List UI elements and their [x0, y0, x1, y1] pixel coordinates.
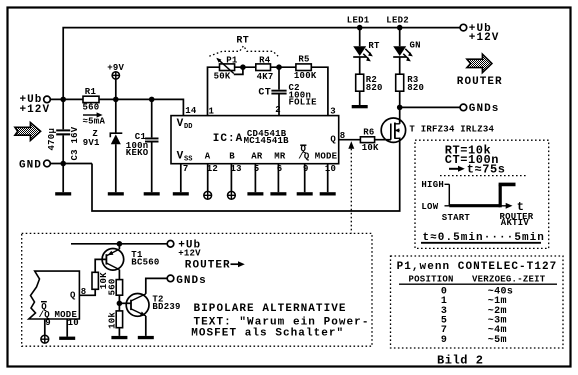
ROUTER label lower [185, 260, 245, 272]
svg-text:≈5mA: ≈5mA [83, 116, 106, 126]
ground under C1 [144, 192, 160, 195]
svg-text:POSITION: POSITION [409, 275, 454, 285]
svg-text:START: START [442, 213, 471, 223]
svg-text:DD: DD [184, 123, 192, 131]
svg-text:GNDs: GNDs [176, 275, 207, 287]
junction 9V node [113, 97, 119, 103]
LED2 green [393, 28, 421, 75]
node LED2 junction [397, 25, 403, 31]
svg-text:10K: 10K [362, 143, 379, 153]
pin 7 VSS to ground [180, 164, 182, 193]
pin 9 fragment terminal [44, 319, 46, 335]
svg-text:4K7: 4K7 [257, 72, 274, 82]
junction P1 wiper [240, 64, 246, 70]
node GNDs lower terminal [167, 275, 207, 287]
svg-text:3: 3 [330, 107, 336, 117]
timing diagram [421, 180, 533, 228]
svg-text:A: A [205, 151, 211, 161]
node GNDs output terminal [460, 103, 499, 115]
svg-text:~5m: ~5m [488, 335, 507, 346]
svg-text:12: 12 [207, 164, 218, 174]
node +Ub output terminal [460, 23, 499, 44]
svg-text:10: 10 [68, 318, 79, 328]
svg-text:RT: RT [236, 35, 249, 46]
transistor T1 BC560 [102, 244, 159, 280]
pin 9 to ground [304, 164, 306, 193]
ground under C3 [62, 164, 64, 193]
svg-text:5: 5 [254, 164, 260, 174]
svg-text:AKTIV: AKTIV [501, 218, 530, 228]
svg-text:LOW: LOW [421, 202, 438, 212]
junction GND [60, 161, 66, 167]
svg-text:MODE: MODE [315, 151, 338, 161]
wire R4 to R5 [271, 66, 296, 68]
node LED1 junction [357, 25, 363, 31]
svg-text:SS: SS [184, 156, 192, 164]
svg-text:BIPOLARE ALTERNATIVE: BIPOLARE ALTERNATIVE [194, 303, 347, 315]
ground under zener [108, 192, 124, 195]
RT dotted brace [209, 35, 278, 56]
junction pin2 node [276, 64, 282, 70]
svg-text:470µ: 470µ [47, 128, 57, 151]
LED1 red [353, 28, 380, 75]
svg-text:C3 16V: C3 16V [70, 126, 80, 160]
svg-text:Q: Q [330, 135, 336, 145]
svg-text:7: 7 [183, 164, 189, 174]
node +Ub input terminal [20, 94, 51, 116]
wire +12V rail up and across top [63, 28, 460, 100]
wire base node to T2 [119, 302, 131, 304]
wire R5 to pin3 riser [311, 67, 328, 115]
resistor R3 820 [396, 74, 424, 107]
svg-text:R6: R6 [363, 127, 374, 137]
svg-text:IC:A: IC:A [213, 133, 244, 145]
resistor R4 4K7 [256, 55, 274, 82]
svg-text:10: 10 [325, 164, 336, 174]
svg-text:+12V: +12V [20, 104, 51, 116]
svg-text:50K: 50K [214, 72, 231, 82]
svg-text:GN: GN [410, 40, 421, 50]
wire GND terminal to rail [50, 163, 92, 165]
pin 12 A terminal [207, 164, 209, 192]
wire Q pin8 to R6 [339, 139, 361, 141]
svg-text:9: 9 [45, 318, 51, 328]
pin 10 MODE to ground [327, 164, 329, 193]
svg-text:R5: R5 [298, 54, 309, 64]
supply +9V [107, 63, 124, 99]
resistor R6 10K [360, 127, 379, 153]
capacitor C3 470u [47, 99, 80, 163]
svg-text:6: 6 [277, 164, 283, 174]
junction T1 emitter [117, 241, 123, 247]
resistor R5 100K [294, 54, 317, 81]
junction T2 base node [117, 301, 123, 307]
wire pin1 riser [208, 67, 220, 115]
svg-text:Bild 2: Bild 2 [437, 353, 484, 367]
op IC1 CD4541B box [171, 116, 339, 164]
svg-text:KEKO: KEKO [126, 148, 149, 158]
ground under 10k [118, 328, 120, 336]
ground under T2 emitter [138, 336, 154, 339]
svg-text:B: B [229, 151, 235, 161]
svg-text:GND: GND [19, 159, 42, 171]
svg-text:560: 560 [83, 102, 100, 112]
node GND input terminal [19, 159, 50, 171]
potentiometer P1 50K [214, 55, 243, 81]
svg-text:ROUTER: ROUTER [185, 260, 231, 272]
svg-text:ROUTER: ROUTER [457, 76, 503, 88]
transistor T1 MOSFET IRFZ34 [381, 107, 494, 142]
junction +Ub/rail [60, 97, 66, 103]
delay range label [421, 232, 545, 244]
svg-text:820: 820 [366, 83, 383, 93]
ground under R2 [352, 105, 368, 108]
svg-text:+12V: +12V [178, 248, 201, 258]
junction drain node [397, 105, 403, 111]
IC fragment torn [29, 271, 80, 320]
wire R6 to gate [375, 139, 391, 141]
svg-text:RT: RT [368, 41, 380, 51]
svg-text:BC560: BC560 [131, 258, 159, 268]
wire 10K to T1 base [95, 259, 106, 272]
junction C1 node [149, 97, 155, 103]
pin 10 fragment to ground [66, 319, 68, 337]
svg-text:MR: MR [274, 151, 286, 161]
P1 position table dotted box [391, 256, 564, 348]
wire GND rail to MOSFET source [92, 138, 400, 212]
svg-text:FOLIE: FOLIE [289, 98, 318, 108]
capacitor C1 100n [126, 99, 159, 192]
svg-text:LED2: LED2 [386, 15, 409, 25]
pin 13 B terminal [230, 164, 232, 192]
svg-text:CT: CT [258, 87, 271, 98]
wire 560 to junction [118, 295, 120, 311]
wire GNDs to T2 collector [146, 278, 167, 294]
capacitor C2 100n FOLIE [258, 67, 317, 115]
RT/CT info dotted box [415, 140, 549, 248]
current arrow 5mA [83, 112, 106, 126]
resistor R2 820 [356, 74, 383, 105]
svg-text:820: 820 [407, 83, 424, 93]
wire drain node to GNDs [400, 106, 460, 108]
wire Q to base network [79, 289, 95, 295]
input arrow icon [15, 123, 41, 141]
svg-text:9V1: 9V1 [83, 138, 100, 148]
resistor 10K base [92, 272, 109, 289]
ROUTER arrow icon [467, 54, 492, 72]
resistor 10k pulldown [107, 311, 122, 329]
svg-text:LED1: LED1 [347, 15, 370, 25]
wire +Ub rail lower [71, 243, 167, 245]
svg-text:/Q: /Q [298, 151, 310, 161]
svg-text:MC14541B: MC14541B [244, 136, 290, 146]
svg-text:Q: Q [70, 291, 76, 301]
dotted annotation arrow to alternative [348, 141, 354, 233]
svg-text:MOSFET als Schalter": MOSFET als Schalter" [191, 327, 344, 339]
resistor R1 [83, 87, 100, 112]
svg-text:10k: 10k [107, 312, 117, 329]
svg-text:VERZOEG.-ZEIT: VERZOEG.-ZEIT [472, 275, 546, 285]
svg-text:2: 2 [275, 105, 281, 115]
svg-text:P1,wenn CONTELEC-T127: P1,wenn CONTELEC-T127 [397, 261, 558, 273]
wire R1 to VDD [99, 99, 183, 115]
svg-text:T IRFZ34 IRLZ34: T IRFZ34 IRLZ34 [409, 125, 494, 135]
zener diode Z 9V1 [83, 99, 123, 192]
wire P1 to R4 [235, 66, 256, 68]
resistor 560 [107, 278, 122, 295]
svg-text:9: 9 [441, 335, 447, 346]
svg-text:AR: AR [251, 151, 263, 161]
svg-text:1: 1 [209, 106, 215, 116]
svg-text:HIGH: HIGH [421, 180, 444, 190]
pin 5 AR to ground [254, 164, 256, 193]
svg-text:BD239: BD239 [152, 302, 180, 312]
bipolar alternative dotted box [22, 233, 372, 346]
bipolar alternative caption [191, 303, 369, 339]
svg-text:9: 9 [303, 164, 309, 174]
pin 6 MR to ground [277, 164, 279, 193]
svg-text:GNDs: GNDs [469, 103, 500, 115]
node +Ub lower terminal [167, 240, 201, 259]
transistor T2 BD239 [126, 294, 180, 336]
svg-text:100K: 100K [294, 71, 317, 81]
svg-text:13: 13 [231, 164, 242, 174]
svg-text:+12V: +12V [469, 32, 500, 44]
svg-text:560: 560 [107, 278, 117, 295]
svg-text:t≈75s: t≈75s [467, 163, 506, 177]
wire +Ub to R1 [50, 98, 83, 100]
svg-text:14: 14 [185, 106, 197, 116]
